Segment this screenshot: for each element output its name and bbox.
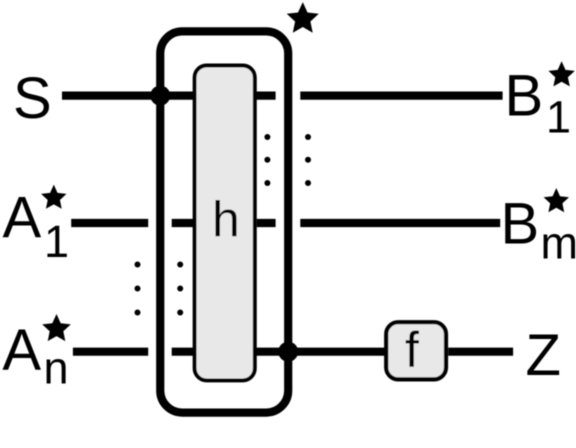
wire A1 input — [71, 219, 148, 227]
box h — [195, 66, 255, 381]
dots right column 1 — [264, 134, 270, 140]
wire An into h — [172, 348, 199, 356]
star on B1 — [548, 61, 574, 86]
svg-text:S: S — [13, 66, 52, 131]
svg-text:A: A — [2, 318, 41, 383]
wire h to B1 stub — [255, 91, 276, 99]
svg-text:A: A — [3, 186, 42, 251]
wire Bm output — [300, 219, 500, 227]
svg-text:m: m — [541, 218, 576, 269]
svg-text:B: B — [505, 64, 544, 129]
svg-text:Z: Z — [526, 323, 561, 388]
wire B1 output — [300, 91, 502, 99]
star on Bm — [544, 188, 569, 212]
svg-text:1: 1 — [546, 92, 571, 143]
dots right column 2 — [305, 134, 311, 140]
svg-text:B: B — [501, 192, 540, 257]
wire h to f — [255, 348, 386, 356]
wire S input — [62, 91, 199, 99]
wire A1 into h — [172, 219, 199, 227]
junction node An output — [278, 342, 298, 362]
star on An — [42, 314, 71, 341]
dots left column 2 — [177, 262, 183, 268]
wire h to Bm stub — [257, 219, 276, 227]
svg-text:n: n — [44, 343, 69, 394]
junction node S — [150, 86, 170, 106]
star on A1 — [41, 185, 66, 209]
wire An input — [73, 348, 148, 356]
star on outer box — [287, 2, 319, 33]
svg-text:1: 1 — [44, 216, 69, 267]
svg-text:f: f — [405, 322, 419, 378]
box f — [386, 322, 446, 379]
svg-text:h: h — [212, 192, 240, 248]
box outer rounded rectangle — [160, 31, 288, 412]
dots left column 1 — [135, 262, 141, 268]
wire f to Z — [448, 348, 513, 356]
